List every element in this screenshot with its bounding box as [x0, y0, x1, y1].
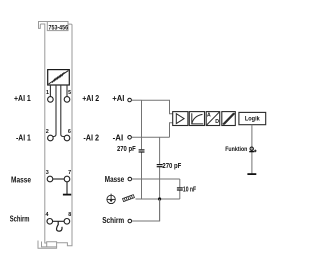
- wire pin3-pin7: [53, 178, 64, 180]
- svg-text:5: 5: [68, 90, 71, 96]
- pin 5: [64, 97, 70, 103]
- pin 4: [47, 219, 53, 225]
- transducer U1 (isolation transducer box): [48, 70, 70, 85]
- svg-text:Schirm: Schirm: [102, 216, 124, 225]
- isolation box U5: [222, 112, 236, 126]
- svg-text:7: 7: [68, 170, 71, 176]
- svg-text:3: 3: [46, 170, 49, 176]
- functional earth symbol: [107, 194, 115, 204]
- wire Masse row: [132, 178, 180, 180]
- pin 2: [48, 135, 54, 141]
- svg-text:Schirm: Schirm: [10, 214, 30, 223]
- node Masse: [128, 177, 132, 181]
- svg-text:Logik: Logik: [245, 116, 260, 123]
- svg-text:270 pF: 270 pF: [117, 146, 136, 153]
- svg-text:D: D: [215, 119, 219, 125]
- capacitor C1 270 pF: [139, 149, 145, 151]
- svg-text:2: 2: [46, 129, 49, 135]
- input block box: [142, 100, 173, 137]
- A/D converter box U4: [206, 112, 220, 126]
- pin 8: [64, 219, 70, 225]
- node +AI: [128, 98, 132, 102]
- capacitor C3 10 nF: [177, 187, 183, 189]
- wire Schirm riser: [132, 199, 160, 221]
- svg-text:A: A: [207, 113, 211, 119]
- svg-text:-AI 2: -AI 2: [83, 133, 99, 142]
- module 753-456 outline: [38, 22, 72, 249]
- svg-text:10 nF: 10 nF: [183, 186, 197, 193]
- wire pin7 down: [66, 182, 68, 194]
- svg-text:270 pF: 270 pF: [162, 163, 182, 170]
- svg-text:-AI 1: -AI 1: [16, 133, 31, 142]
- pin 7: [64, 176, 70, 182]
- pin 6: [64, 135, 70, 141]
- wire -AI along box bottom: [132, 136, 170, 138]
- wire +AI to box: [132, 99, 142, 101]
- svg-text:-AI: -AI: [113, 133, 124, 142]
- Logik box U6: [239, 112, 266, 124]
- ground T-bar Logik: [247, 173, 256, 175]
- module label box 753-456: [47, 22, 68, 31]
- wire to pin2: [53, 85, 56, 137]
- wire cap1 bus: [141, 137, 143, 149]
- pin 1: [48, 97, 54, 103]
- pin 3: [47, 176, 53, 182]
- capacitor C2 270 pF: [157, 164, 163, 166]
- wire cap2 bus: [159, 137, 161, 164]
- node -AI: [128, 136, 132, 140]
- shield hook pin4/8: [57, 221, 63, 231]
- node Schirm: [128, 219, 132, 223]
- wire pin5 stub: [66, 85, 68, 96]
- wire to pin6: [61, 85, 65, 137]
- svg-text:6: 6: [68, 129, 71, 135]
- wire 10nF bus: [179, 179, 181, 187]
- svg-text:1: 1: [46, 90, 49, 96]
- svg-text:4: 4: [46, 212, 49, 218]
- svg-text:+AI 1: +AI 1: [14, 94, 31, 103]
- junction dot: [158, 197, 161, 200]
- svg-text:+AI: +AI: [112, 94, 124, 103]
- svg-text:Funktion: Funktion: [225, 146, 247, 153]
- svg-text:753-456: 753-456: [49, 24, 69, 31]
- svg-text:Masse: Masse: [105, 175, 125, 184]
- svg-text:Masse: Masse: [11, 176, 31, 185]
- svg-text:8: 8: [68, 212, 71, 218]
- shield clamp symbol: [123, 195, 135, 202]
- ground T-bar pin7: [63, 194, 71, 196]
- wire pin1 stub: [49, 85, 51, 96]
- amplifier box U2: [173, 112, 188, 126]
- filter box U3: [189, 112, 204, 126]
- svg-text:+AI 2: +AI 2: [82, 94, 99, 103]
- config switch icon: [249, 147, 256, 152]
- wire pin4-pin8: [53, 220, 64, 222]
- shield bus wire: [136, 198, 180, 200]
- wire Logik down: [251, 125, 253, 174]
